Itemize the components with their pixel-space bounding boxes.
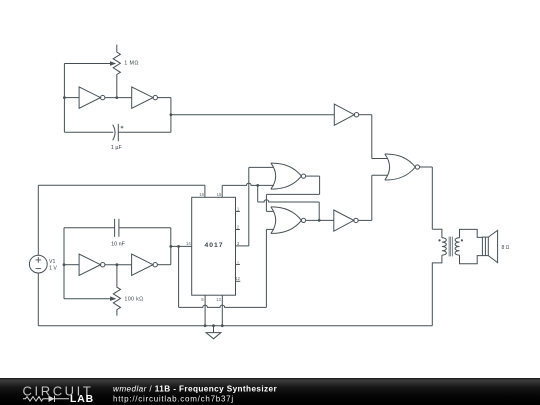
node junction ground stub xyxy=(212,324,215,327)
wire pin3 riser to NOR1 xyxy=(248,167,250,246)
wire osc2 top right xyxy=(119,227,171,229)
node junction reset net xyxy=(256,184,259,187)
NOR U8 bubble xyxy=(301,218,305,222)
node junction R2 top xyxy=(116,263,119,266)
node junction osc1 out xyxy=(170,113,173,116)
wire clock branch up to NOR2 input xyxy=(265,229,267,307)
wire osc1 bottom left xyxy=(64,131,113,133)
inverter U2 triangle xyxy=(132,87,153,108)
footer bar xyxy=(0,378,540,405)
resistor R2 100 kΩ potentiometer body xyxy=(113,265,120,316)
wire inverter U1 input xyxy=(64,97,79,99)
NOR U7 bubble xyxy=(301,174,305,178)
svg-text:wmedlar / 11B - Frequency Synt: wmedlar / 11B - Frequency Synthesizer xyxy=(113,384,277,393)
ground symbol triangle xyxy=(206,333,221,339)
buffer U5 bubble xyxy=(354,113,358,117)
pin 2 stub xyxy=(236,229,240,231)
speaker SPK1 inner line xyxy=(484,237,486,256)
speaker SPK1 horn xyxy=(488,230,497,262)
wire osc1 bottom right xyxy=(118,131,171,133)
capacitor C2 left plate xyxy=(114,219,116,237)
svg-text:4: 4 xyxy=(237,259,240,264)
wire U5 out down xyxy=(371,115,373,159)
wire U1 out to U2 in xyxy=(105,97,132,99)
wire U10 out down to transformer xyxy=(431,167,433,229)
NOR gate U7 (latch top) body xyxy=(271,163,302,189)
wire U9 out xyxy=(358,219,372,221)
wire U7 cross down to U8 input xyxy=(265,194,267,211)
svg-text:http://circuitlab.com/ch7b37j: http://circuitlab.com/ch7b37j xyxy=(113,394,234,403)
ground rail bottom xyxy=(38,325,432,327)
wire U8 feedback horizontal with hop over U7 cross xyxy=(258,200,320,202)
svg-text:8 Ω: 8 Ω xyxy=(502,245,510,251)
svg-text:4017: 4017 xyxy=(204,242,223,249)
transformer T1 secondary phase dot xyxy=(461,239,463,241)
wire to primary top xyxy=(432,229,442,238)
source V1 minus xyxy=(36,268,42,270)
svg-text:10 nF: 10 nF xyxy=(111,241,125,247)
pin 1 stub xyxy=(236,210,240,212)
svg-text:100 kΩ: 100 kΩ xyxy=(124,297,143,303)
node junction pin8 at rail xyxy=(204,324,207,327)
speaker SPK1 driver rectangle xyxy=(482,237,488,256)
wire U7 cross horizontal xyxy=(266,193,319,195)
wire to NOR3 lower input xyxy=(372,174,388,176)
inverter U1 triangle xyxy=(79,87,100,108)
node junction U8 out xyxy=(318,219,321,222)
IC U6 4017 body xyxy=(192,197,236,295)
buffer U9 bubble xyxy=(354,218,358,222)
transformer T1 core lines xyxy=(449,237,452,257)
svg-text:15: 15 xyxy=(217,192,222,197)
wire osc1 to buffer U5 xyxy=(171,114,334,116)
wire secondary top to speaker xyxy=(460,229,483,237)
capacitor C2 right plate xyxy=(118,219,120,237)
pin 8 riser with hop crossing xyxy=(204,295,206,326)
wire U7 output xyxy=(306,175,320,177)
ground stub xyxy=(213,326,215,333)
svg-text:1 µF: 1 µF xyxy=(111,145,123,151)
wire U2 out xyxy=(158,97,171,99)
svg-text:14: 14 xyxy=(186,241,191,246)
node junction R1 bottom xyxy=(115,96,118,99)
transformer T1 secondary coil xyxy=(455,238,459,255)
capacitor C1 straight plate xyxy=(117,124,119,141)
svg-text:1 MΩ: 1 MΩ xyxy=(124,60,139,66)
svg-text:1: 1 xyxy=(237,206,240,211)
svg-text:12: 12 xyxy=(235,276,240,281)
wire U3 out to U4 in xyxy=(105,264,132,266)
wire NOR1 lower input stub xyxy=(258,184,274,186)
wire R2 wiper horizontal xyxy=(64,298,111,300)
wire to NOR3 upper input xyxy=(372,158,388,160)
source V1 circle xyxy=(29,255,47,273)
inverter U1 bubble xyxy=(101,95,105,99)
wire U9 out up xyxy=(371,175,373,220)
svg-text:13: 13 xyxy=(216,297,221,302)
logo resistor zigzag and diode xyxy=(23,396,69,402)
svg-text:2: 2 xyxy=(237,224,240,229)
capacitor C1 plus sign xyxy=(121,126,124,129)
wire U4 out xyxy=(157,264,170,266)
wire pin3 to NOR1 upper input stub xyxy=(249,166,274,168)
svg-text:V1: V1 xyxy=(49,259,55,265)
svg-text:8: 8 xyxy=(201,297,204,302)
buffer U5 input from osc1 xyxy=(334,104,354,125)
wire clock branch down xyxy=(178,246,180,307)
wire osc2 out to pin 14 xyxy=(171,245,192,247)
wire U8 output xyxy=(306,219,334,221)
wiper arrowhead into R2 xyxy=(110,296,116,301)
source V1 bottom wire xyxy=(37,273,39,326)
svg-text:16: 16 xyxy=(199,192,204,197)
node junction clock branch xyxy=(177,245,180,248)
svg-text:3: 3 xyxy=(237,241,240,246)
resistor R1 1 MΩ potentiometer body xyxy=(113,45,120,98)
wire U8 feedback up to reset node xyxy=(257,185,259,202)
wire secondary bottom to speaker xyxy=(460,255,483,264)
NOR U10 bubble xyxy=(415,165,419,169)
inverter U4 bubble xyxy=(153,263,157,267)
wire osc1 right vertical xyxy=(170,98,172,133)
source V1 plus xyxy=(36,257,42,263)
pin 12 stub xyxy=(236,280,241,282)
power rail top from V1 to pin16 xyxy=(38,184,205,186)
pin 4 stub xyxy=(236,263,240,265)
wire NOR2 lower input stub xyxy=(266,228,273,230)
node junction osc2 input xyxy=(63,263,66,266)
wire U8 upper input stub xyxy=(266,210,273,212)
source V1 top wire xyxy=(37,185,39,255)
capacitor C1 curved plate xyxy=(113,125,115,141)
wire U5 out xyxy=(359,114,372,116)
inverter U2 bubble xyxy=(153,95,157,99)
svg-text:LAB: LAB xyxy=(70,394,94,405)
wire U10 output xyxy=(420,166,433,168)
pin 13 riser xyxy=(221,295,223,326)
NOR gate U8 (latch bottom) body xyxy=(271,207,302,234)
wire osc2 top left to C2 xyxy=(64,227,115,229)
wire inverter U3 input xyxy=(64,264,79,266)
inverter U3 triangle xyxy=(79,254,100,275)
wiper arrowhead into R1 xyxy=(110,61,116,66)
buffer U9 (lower) triangle xyxy=(334,210,354,231)
wire osc1 wiper horizontal to R1 xyxy=(64,63,110,65)
wire U8 feedback up xyxy=(318,202,320,220)
wire clock branch horizontal with hops over pin8 and pin13 xyxy=(179,305,267,307)
node junction pin13 at rail xyxy=(221,324,224,327)
wire pin15 to latch with hop over pin3 riser xyxy=(222,183,258,185)
inverter U4 triangle xyxy=(132,254,153,275)
pin 3 wire xyxy=(236,245,249,247)
pin 15 riser xyxy=(221,185,223,197)
NOR gate U10 (output mixer) body xyxy=(385,154,416,180)
wire primary bottom return xyxy=(432,255,442,326)
wire osc2 feedback left vertical xyxy=(63,228,65,299)
wire osc1 feedback left vertical xyxy=(63,64,65,133)
transformer T1 primary coil xyxy=(442,238,446,255)
pin 16 riser xyxy=(204,185,206,197)
node junction osc1 input xyxy=(63,96,66,99)
inverter U3 bubble xyxy=(101,263,105,267)
wire U7 out down xyxy=(319,176,321,194)
transformer T1 primary phase dot xyxy=(438,239,440,241)
node junction osc2 out xyxy=(169,245,172,248)
wire osc2 right vertical xyxy=(170,228,172,265)
svg-text:1 V: 1 V xyxy=(49,265,57,271)
